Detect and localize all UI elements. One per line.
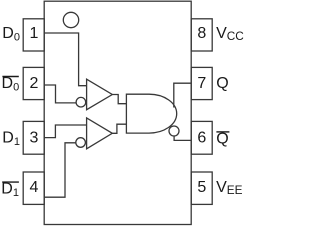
svg-text:6: 6 (197, 130, 206, 147)
pin 6 box (191, 121, 212, 154)
svg-text:D1: D1 (1, 181, 19, 200)
svg-text:Q: Q (216, 75, 228, 92)
svg-text:5: 5 (197, 179, 206, 196)
pin 2 box (23, 67, 44, 99)
svg-text:VCC: VCC (216, 25, 244, 43)
svg-text:3: 3 (30, 130, 39, 147)
wire U2b output to AND gate bottom input (112, 124, 126, 133)
svg-text:7: 7 (197, 75, 206, 92)
pin 8 box (191, 19, 212, 51)
wire Q output to pin 7 (174, 83, 191, 107)
buffer U2b triangle (87, 118, 113, 149)
wire U2a output to AND gate top input (112, 95, 126, 104)
pin-1 indicator circle (63, 12, 78, 27)
wire pin2 /D0 to buffer U2a inverting input (44, 85, 76, 103)
svg-text:D0: D0 (2, 75, 20, 94)
IC package body U1 (44, 1, 191, 224)
svg-text:VEE: VEE (216, 179, 243, 197)
overline for /Q (216, 131, 229, 133)
buffer U2a triangle (87, 79, 113, 110)
overline for /D1 (2, 181, 19, 183)
svg-text:4: 4 (30, 179, 39, 196)
pin 1 box (23, 19, 44, 51)
buffer U2b inverting-input bubble (76, 138, 86, 148)
overline for /D0 (2, 76, 18, 78)
svg-text:D1: D1 (2, 130, 20, 149)
wire pin1 D0 to buffer U2a input (44, 33, 87, 86)
pin 3 box (23, 121, 44, 154)
buffer U2a inverting-input bubble (76, 97, 86, 107)
AND gate U3 (126, 94, 176, 133)
svg-text:Q: Q (216, 131, 228, 148)
wire pin4 /D1 to buffer U2b inverting input (44, 143, 76, 197)
wire /Q output from bubble to pin 6 (174, 136, 191, 140)
pin 4 box (23, 172, 44, 204)
svg-text:1: 1 (30, 25, 39, 42)
svg-text:2: 2 (30, 75, 39, 92)
AND gate inverted-output bubble (169, 126, 179, 136)
wire pin3 D1 to buffer U2b input (44, 125, 87, 138)
svg-text:8: 8 (197, 25, 206, 42)
svg-text:D0: D0 (2, 25, 20, 44)
pin 7 box (191, 67, 212, 99)
pin 5 box (191, 172, 212, 204)
